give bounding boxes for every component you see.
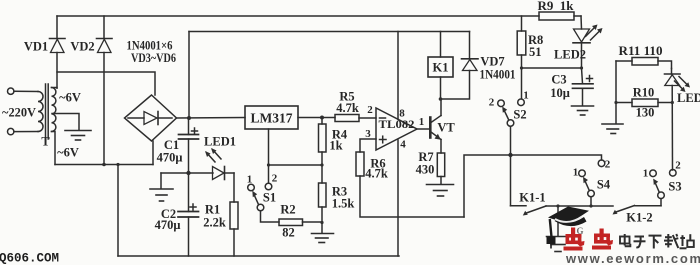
resistor R8	[517, 16, 526, 68]
svg-text:VD2: VD2	[70, 40, 94, 54]
svg-text:~6V: ~6V	[59, 91, 81, 105]
svg-text:470μ: 470μ	[155, 218, 181, 232]
svg-text:R10: R10	[633, 86, 655, 100]
relay coil K1	[428, 32, 453, 100]
ground transformer center tap	[65, 131, 91, 141]
svg-text:1.5k: 1.5k	[332, 197, 355, 211]
resistor R1	[230, 173, 238, 256]
svg-text:LM317: LM317	[251, 111, 293, 126]
svg-text:K1: K1	[433, 61, 449, 75]
watermark chinese site name	[620, 234, 694, 249]
svg-text:2: 2	[272, 173, 278, 185]
svg-text:K1-2: K1-2	[626, 211, 652, 225]
wire adj junction to divider	[269, 164, 323, 166]
svg-text:K1-1: K1-1	[519, 191, 545, 205]
svg-text:S2: S2	[513, 108, 526, 122]
svg-text:1: 1	[573, 167, 579, 179]
svg-text:1: 1	[247, 174, 253, 186]
svg-text:470μ: 470μ	[157, 151, 183, 165]
svg-text:430: 430	[416, 163, 435, 177]
svg-text:S3: S3	[668, 180, 681, 194]
svg-text:LED1: LED1	[204, 135, 236, 149]
svg-text:2: 2	[367, 104, 373, 116]
svg-text:2: 2	[489, 97, 495, 109]
resistor R4	[319, 118, 327, 166]
transistor VT	[430, 99, 441, 153]
wire down to S2 pin1	[521, 68, 523, 99]
ground below R7	[427, 185, 454, 197]
svg-text:2.2k: 2.2k	[203, 216, 226, 230]
wire bridge + output to LM317 input	[177, 117, 246, 120]
svg-text:1: 1	[643, 168, 649, 180]
resistor R11	[616, 58, 672, 69]
IC LM317	[245, 106, 322, 129]
wire bottom winding line	[55, 164, 153, 166]
svg-text:VD3~VD6: VD3~VD6	[131, 51, 176, 65]
diode VD2	[97, 16, 113, 165]
wire top positive rail	[57, 15, 539, 17]
svg-text:10μ: 10μ	[550, 86, 570, 100]
ground below R3	[312, 223, 334, 243]
watermark chongchong red characters	[564, 228, 614, 251]
wire feedback riser to S2 node	[464, 155, 511, 217]
node K1/VD7 junction	[439, 97, 443, 101]
wire drop to bottom rail	[117, 165, 119, 257]
svg-text:LED3: LED3	[677, 91, 700, 105]
svg-text:130: 130	[636, 106, 655, 120]
bridge rectifier VD3~VD6	[125, 95, 177, 141]
svg-text:2: 2	[675, 160, 681, 172]
svg-text:VD7: VD7	[480, 55, 504, 69]
resistor R9	[539, 12, 574, 20]
wire R10/R11 left riser	[615, 61, 617, 124]
resistor R2	[279, 219, 322, 226]
diode VD1	[50, 16, 66, 88]
ground below R10 riser	[602, 124, 623, 134]
wire to bridge AC bottom	[152, 141, 154, 165]
svg-text:~220V: ~220V	[2, 106, 36, 120]
svg-text:R11 110: R11 110	[619, 44, 663, 58]
svg-text:VD1: VD1	[24, 40, 48, 54]
switch S3	[650, 170, 676, 206]
wire drop from second rail to bridge output node	[188, 32, 190, 119]
ground common line	[547, 206, 570, 252]
relay contact K1-1	[511, 206, 614, 216]
svg-text:VT: VT	[437, 121, 455, 135]
node bridge output junction	[187, 116, 191, 120]
svg-text:R1: R1	[205, 203, 220, 217]
svg-text:4.7k: 4.7k	[365, 167, 388, 181]
svg-text:T: T	[41, 135, 50, 149]
wire second rail (bridge + output)	[189, 31, 470, 33]
svg-text:Q606.COM: Q606.COM	[0, 252, 59, 265]
svg-text:C3: C3	[551, 73, 566, 87]
diode VD7	[441, 32, 479, 100]
capacitor C2	[178, 173, 199, 256]
watermark logo graduation cap	[547, 207, 590, 249]
svg-text:R2: R2	[280, 203, 295, 217]
LED LED2	[573, 16, 603, 68]
capacitor C3	[573, 68, 594, 106]
svg-text:S1: S1	[263, 191, 276, 205]
svg-text:LED2: LED2	[554, 48, 586, 62]
ground mid rail	[150, 173, 173, 201]
wire S2 node to S4 pin2	[511, 155, 602, 160]
svg-text:S4: S4	[597, 178, 611, 192]
op-amp U1 TL082	[376, 32, 430, 257]
wire S2 node down to K1-1	[510, 155, 512, 206]
svg-text:82: 82	[282, 226, 295, 240]
switch S4	[579, 160, 605, 206]
svg-text:1: 1	[419, 116, 425, 128]
wire mid ground rail	[161, 172, 213, 174]
svg-text:4.7k: 4.7k	[336, 101, 359, 115]
svg-text:TL082: TL082	[379, 119, 415, 131]
svg-text:3: 3	[365, 128, 371, 140]
svg-text:1: 1	[523, 90, 529, 102]
switch S2	[498, 99, 525, 155]
svg-text:R9 1k: R9 1k	[538, 0, 574, 13]
capacitor C1	[179, 118, 199, 173]
node S2 common junction	[508, 153, 512, 157]
transformer T	[8, 84, 80, 165]
node LM317 out junction	[320, 116, 324, 120]
svg-text:1k: 1k	[329, 139, 342, 153]
wire LM317 adj to S1 pin2	[268, 129, 270, 183]
LED LED3	[665, 69, 691, 171]
LED LED1	[205, 148, 234, 180]
wire VD1 anode branch to bridge AC top	[57, 72, 155, 95]
ground below C3	[572, 106, 594, 115]
svg-text:51: 51	[529, 45, 542, 59]
wire R8 bottom to LED2 bottom	[522, 67, 582, 69]
wire bottom rail	[118, 255, 399, 257]
node C1 bottom junction	[186, 171, 190, 175]
resistor R6	[356, 139, 464, 217]
svg-text:www.eeworm.com: www.eeworm.com	[565, 251, 700, 265]
relay contact K1-2	[613, 206, 662, 215]
resistor R5	[335, 115, 376, 122]
wire out to R5	[322, 117, 335, 119]
svg-text:~6V: ~6V	[57, 146, 79, 160]
svg-text:2: 2	[605, 159, 611, 171]
resistor R3	[319, 165, 327, 223]
svg-text:4: 4	[400, 139, 406, 151]
node junction dots	[102, 66, 674, 224]
resistor R10	[616, 99, 672, 107]
svg-text:1N4001: 1N4001	[480, 68, 516, 82]
switch S1	[248, 183, 279, 222]
svg-text:8: 8	[399, 108, 405, 120]
resistor R7	[437, 153, 444, 184]
